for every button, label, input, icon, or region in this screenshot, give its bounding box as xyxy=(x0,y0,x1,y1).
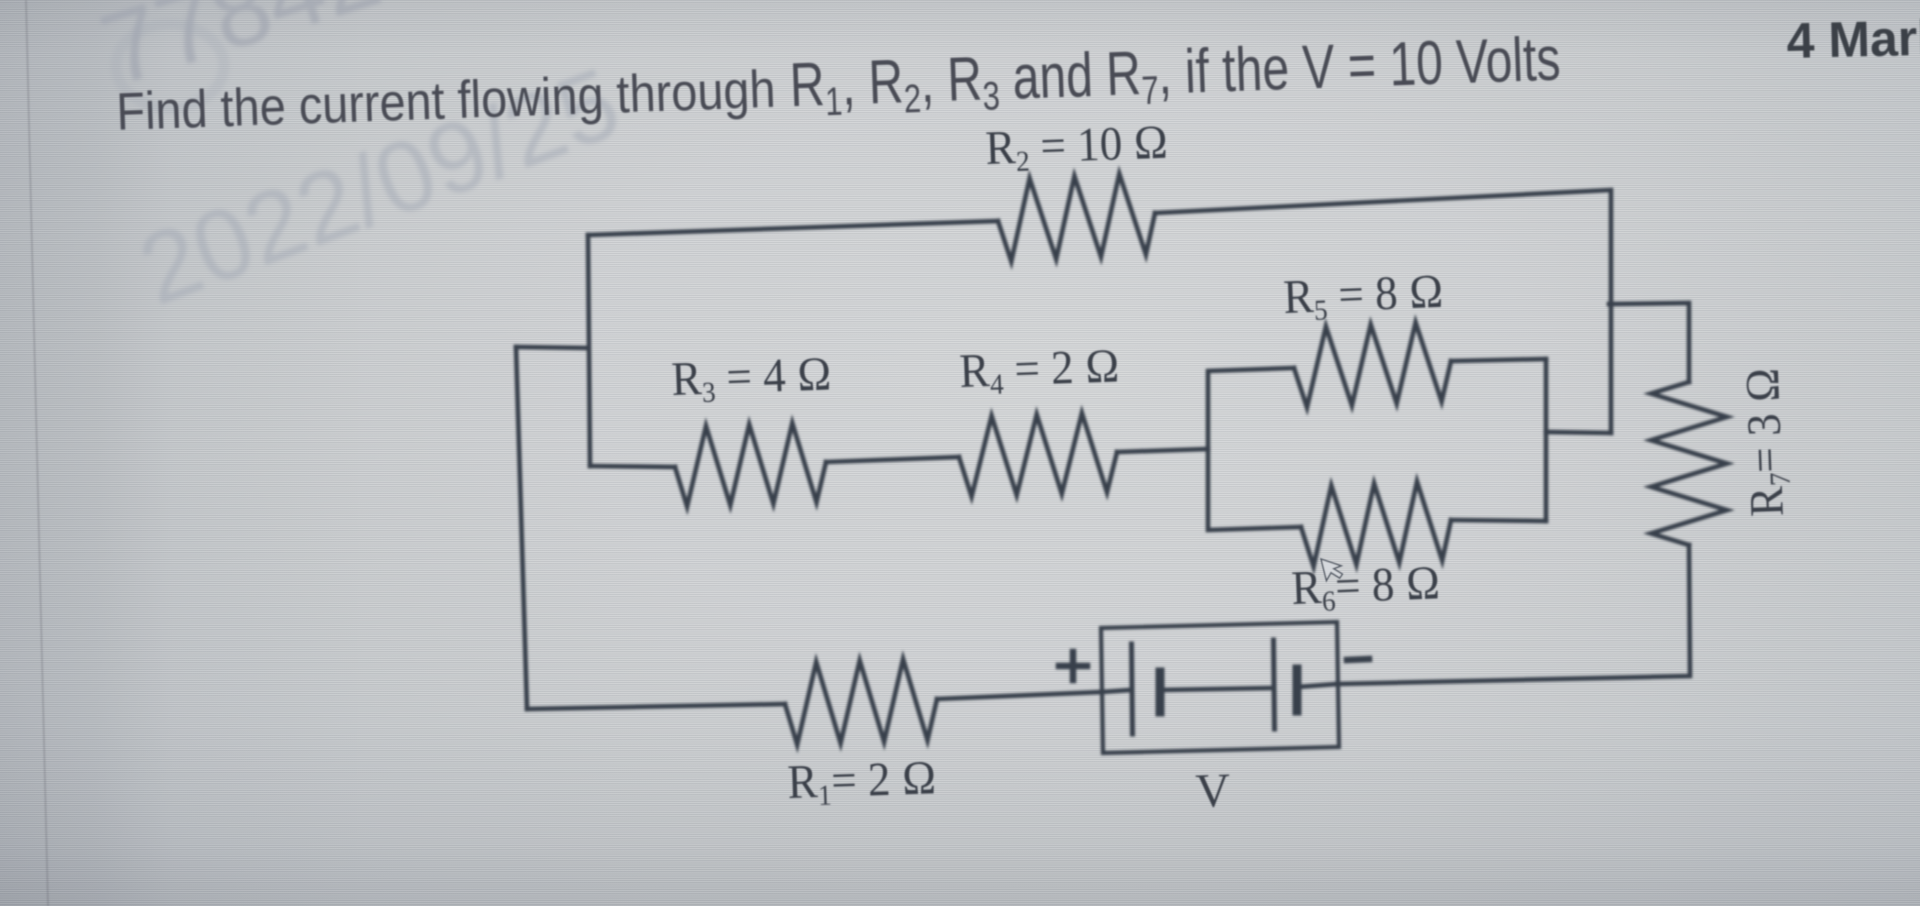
resistor R1 (2 ohm, bottom branch) xyxy=(785,659,937,745)
wire: tap from node column to outer-left rail xyxy=(516,347,588,348)
battery minus sign xyxy=(1347,659,1369,660)
label R3 = 4 ohm xyxy=(671,347,833,410)
resistor R6 (8 ohm, lower of parallel pair) xyxy=(1301,482,1451,567)
wire: outer-left vertical rail xyxy=(516,347,527,709)
resistor R7 (3 ohm, right vertical) xyxy=(1651,382,1727,545)
wire: left node to R3 xyxy=(590,466,675,467)
watermark smudge ring xyxy=(116,24,224,108)
svg-text:R3 = 4 Ω: R3 = 4 Ω xyxy=(671,347,833,410)
battery enclosure box xyxy=(1101,622,1339,753)
wire: R2 to top-right corner, down right side xyxy=(1155,190,1611,433)
battery plus sign xyxy=(1059,652,1087,680)
wire: bottom rail to R1 xyxy=(527,704,785,709)
wire: R4 right lead to parallel-pair left xyxy=(1117,449,1208,452)
label R6 = 8 ohm xyxy=(1290,556,1441,619)
wire: R7 bottom down to bottom rail, left to battery minus xyxy=(1337,545,1690,684)
wire: left vertical (node A column) xyxy=(588,235,590,466)
battery cell 1 long plate xyxy=(1132,644,1133,734)
label V (battery) xyxy=(1195,764,1232,818)
svg-text:V: V xyxy=(1195,764,1232,818)
svg-text:R1, R2, R3 and R7, if the V =: R1, R2, R3 and R7, if the V = 10 Volts xyxy=(789,24,1562,126)
label R5 = 8 ohm xyxy=(1282,265,1444,329)
wire: R1 to battery plus xyxy=(937,692,1101,699)
label R7 = 3 ohm (rotated) xyxy=(1736,367,1799,518)
title text xyxy=(115,24,1562,149)
battery cell 1 short plate xyxy=(1156,672,1165,712)
wire: right-side tap to R7 top xyxy=(1609,303,1689,382)
resistor R2 (10 ohm, top branch) xyxy=(998,174,1155,262)
wire: parallel-pair left vertical + R5 left lead xyxy=(1208,368,1301,530)
screen seam line (left) xyxy=(26,0,48,906)
svg-text:R6= 8 Ω: R6= 8 Ω xyxy=(1290,556,1441,619)
mouse cursor arrow xyxy=(1320,559,1343,581)
svg-text:4 Marks: 4 Marks xyxy=(1786,9,1920,69)
label R4 = 2 ohm xyxy=(959,339,1121,402)
wire: parallel-pair right vertical xyxy=(1544,359,1549,521)
wire: R3 to R4 xyxy=(826,457,959,462)
wire: right vertical to parallel-pair right side xyxy=(1546,432,1611,433)
resistor R5 (8 ohm, upper of parallel pair) xyxy=(1294,323,1451,408)
svg-text:R7= 3 Ω: R7= 3 Ω xyxy=(1736,367,1799,518)
resistor R4 (2 ohm, middle branch) xyxy=(959,413,1117,497)
battery inter-cell wire xyxy=(1160,688,1273,690)
svg-text:R1= 2 Ω: R1= 2 Ω xyxy=(787,751,938,813)
battery cell wire (left entry) xyxy=(1101,690,1131,692)
wire: R5 right lead xyxy=(1451,359,1546,361)
wire: top-left corner to R2 xyxy=(588,221,998,235)
svg-text:R4 = 2 Ω: R4 = 2 Ω xyxy=(959,339,1121,402)
wire: R6 right lead up to mid tap xyxy=(1451,520,1546,521)
battery cell wire (right exit) xyxy=(1297,684,1337,687)
resistor R3 (4 ohm, middle branch) xyxy=(675,423,826,507)
label R1 = 2 ohm xyxy=(787,751,938,813)
svg-text:R2 = 10 Ω: R2 = 10 Ω xyxy=(985,115,1170,179)
battery cell 2 long plate xyxy=(1274,640,1275,729)
battery cell 2 short plate xyxy=(1293,669,1302,711)
label R2 = 10 ohm xyxy=(985,115,1170,179)
svg-text:R5 = 8 Ω: R5 = 8 Ω xyxy=(1282,265,1444,329)
